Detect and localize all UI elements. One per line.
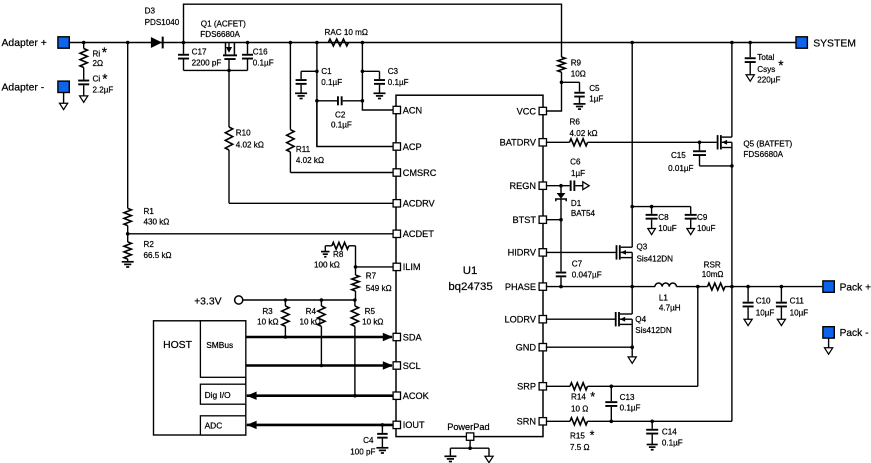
wire C1/ACP riser	[316, 43, 318, 147]
node C10 junction	[746, 285, 750, 289]
wire Q3 drain riser	[631, 43, 633, 248]
svg-text:Q5 (BATFET): Q5 (BATFET)	[743, 140, 792, 149]
wire SRN	[546, 420, 570, 422]
svg-text:ADC: ADC	[205, 421, 223, 431]
svg-text:C4: C4	[363, 436, 374, 445]
transistor Q3 Sis412DN	[616, 243, 673, 264]
svg-text:D1: D1	[571, 199, 582, 208]
svg-text:R3: R3	[262, 307, 273, 316]
pin ACP	[393, 142, 422, 152]
node ILIM junction	[354, 265, 358, 269]
node C13 top junction	[610, 385, 614, 389]
svg-text:RAC 10 mΩ: RAC 10 mΩ	[325, 28, 368, 37]
pin SCL	[393, 361, 420, 371]
pin LODRV	[505, 315, 547, 325]
svg-text:L1: L1	[659, 294, 669, 303]
svg-text:C11: C11	[790, 296, 805, 305]
svg-text:ACDET: ACDET	[403, 229, 435, 239]
pin BTST	[513, 215, 547, 225]
svg-text:*: *	[102, 72, 108, 87]
node C13 bottom junction	[610, 420, 614, 424]
svg-text:C10: C10	[756, 296, 771, 305]
capacitor C7	[556, 220, 602, 287]
svg-text:100 kΩ: 100 kΩ	[314, 261, 340, 270]
svg-text:SMBus: SMBus	[206, 340, 233, 350]
svg-text:HIDRV: HIDRV	[508, 248, 537, 258]
node ACFET gate junction	[227, 69, 231, 73]
transistor Q4 Sis412DN	[615, 312, 672, 335]
port SYSTEM	[796, 37, 856, 50]
svg-text:4.02 kΩ: 4.02 kΩ	[570, 129, 598, 138]
wire SRN riser	[731, 287, 733, 422]
node Q5 top junction	[730, 41, 734, 45]
capacitor Ci	[78, 68, 113, 96]
svg-text:+3.3V: +3.3V	[194, 296, 222, 307]
port Adapter -	[2, 81, 70, 103]
wire SCL	[246, 361, 393, 369]
wire L1 to RSR	[676, 286, 707, 288]
svg-text:BTST: BTST	[513, 215, 537, 225]
svg-text:Pack -: Pack -	[840, 328, 869, 339]
node R5/ACOK junction	[353, 394, 357, 398]
ground below C5	[574, 104, 586, 109]
svg-text:66.5 kΩ: 66.5 kΩ	[144, 251, 172, 260]
pin ACDET	[393, 229, 434, 239]
pin SRN	[517, 417, 547, 427]
svg-text:C6: C6	[570, 158, 581, 167]
svg-text:BATDRV: BATDRV	[500, 138, 537, 148]
pin ILIM	[393, 262, 420, 272]
wire Q3 source riser	[631, 258, 633, 287]
node C11 junction	[780, 285, 784, 289]
svg-text:PHASE: PHASE	[505, 282, 536, 292]
svg-text:C14: C14	[662, 428, 677, 437]
resistor R4	[299, 300, 325, 366]
node C8 rail junction	[630, 205, 634, 209]
wire SDA	[246, 333, 393, 341]
capacitor C15	[668, 142, 732, 173]
svg-text:R2: R2	[144, 240, 155, 249]
resistor R2	[124, 234, 172, 262]
resistor R10	[225, 70, 264, 203]
ground earth below PowerPad	[444, 456, 456, 461]
ground below Pack -	[825, 348, 833, 354]
svg-text:4.02 kΩ: 4.02 kΩ	[296, 156, 324, 165]
svg-text:0.1µF: 0.1µF	[388, 78, 409, 87]
svg-text:Q1 (ACFET): Q1 (ACFET)	[201, 19, 246, 28]
pin ACDRV	[393, 199, 435, 209]
node R9/C5 junction	[560, 81, 564, 85]
wire LODRV	[546, 318, 616, 320]
svg-text:430 kΩ: 430 kΩ	[144, 218, 170, 227]
svg-text:R15: R15	[570, 431, 585, 440]
svg-text:0.1µF: 0.1µF	[253, 59, 274, 68]
svg-text:ACOK: ACOK	[403, 391, 430, 401]
svg-text:C8: C8	[658, 213, 669, 222]
ground below C14	[647, 445, 658, 450]
node R4 top junction	[320, 298, 324, 302]
pin IOUT	[393, 420, 425, 430]
svg-text:0.1µF: 0.1µF	[620, 404, 641, 413]
capacitor C6	[570, 158, 585, 191]
node RAC right junction	[361, 41, 365, 45]
pin HIDRV	[508, 248, 547, 258]
capacitor C9	[685, 207, 716, 233]
svg-text:100 pF: 100 pF	[350, 447, 375, 456]
svg-text:10 kΩ: 10 kΩ	[299, 317, 320, 326]
block HOST	[154, 321, 246, 435]
pin ACOK	[393, 391, 430, 401]
svg-text:ILIM: ILIM	[403, 262, 421, 272]
svg-text:BAT54: BAT54	[571, 209, 596, 218]
capacitor C3	[362, 67, 408, 93]
inductor L1	[655, 283, 681, 312]
wire GND	[546, 346, 632, 348]
svg-text:0.01µF: 0.01µF	[668, 164, 693, 173]
svg-text:SYSTEM: SYSTEM	[813, 39, 856, 50]
wire Q4 source riser	[631, 324, 633, 347]
node ACFET drain junction	[182, 41, 186, 45]
svg-text:R1: R1	[144, 207, 155, 216]
ground below Adapter -	[60, 103, 68, 109]
svg-text:C2: C2	[335, 111, 346, 120]
svg-text:Sis412DN: Sis412DN	[637, 254, 674, 263]
svg-text:10mΩ: 10mΩ	[702, 270, 724, 279]
svg-text:LODRV: LODRV	[505, 315, 537, 325]
node R4/SCL junction	[320, 364, 324, 368]
svg-text:Csys: Csys	[757, 65, 775, 74]
svg-text:REGN: REGN	[509, 181, 536, 191]
pin SRP	[517, 382, 546, 392]
ground below C9	[687, 229, 695, 235]
wire PowerPad ground split	[450, 440, 489, 456]
capacitor C11	[776, 287, 808, 320]
ground below Q4	[628, 347, 636, 363]
node C16 top junction	[246, 41, 250, 45]
node R11 top junction	[289, 41, 293, 45]
svg-text:C9: C9	[697, 213, 708, 222]
wire ACOK	[247, 392, 393, 400]
svg-text:1µF: 1µF	[589, 94, 603, 103]
wire ACN	[362, 101, 393, 110]
wire ILIM	[356, 266, 394, 268]
svg-text:Ri: Ri	[93, 50, 101, 59]
resistor R9	[558, 57, 586, 82]
svg-text:RSR: RSR	[704, 261, 721, 270]
pin SDA	[393, 332, 422, 342]
svg-text:R5: R5	[365, 307, 376, 316]
svg-text:C17: C17	[192, 47, 207, 56]
transistor Q1 (ACFET) FDS6680A	[200, 19, 246, 70]
capacitor C8	[646, 207, 677, 233]
wire top bypass rail (ACFET drain to R9/VCC)	[184, 4, 562, 57]
svg-text:10Ω: 10Ω	[571, 69, 586, 78]
ground below Ci	[80, 96, 88, 102]
resistor R5	[351, 300, 383, 396]
port Pack -	[823, 327, 869, 348]
wire PHASE	[546, 286, 655, 288]
capacitor C4	[350, 425, 387, 456]
svg-text:CMSRC: CMSRC	[403, 168, 437, 178]
resistor RSR 10mOhm	[702, 261, 725, 291]
svg-text:R9: R9	[571, 59, 582, 68]
capacitor C13	[605, 386, 640, 421]
port Pack +	[823, 281, 871, 294]
node Q3/Q4 PHASE junction	[630, 285, 634, 289]
wire C8/C9 rail	[632, 206, 691, 208]
pin REGN	[509, 181, 546, 191]
ground below C10	[744, 319, 752, 325]
svg-text:Total: Total	[757, 53, 774, 62]
svg-text:VCC: VCC	[517, 106, 537, 116]
ground below R2	[122, 262, 134, 267]
node C2 left junction	[315, 99, 319, 103]
transistor Q5 (BATFET) FDS6680A	[717, 135, 793, 159]
ground below C8	[648, 229, 656, 235]
svg-text:IOUT: IOUT	[403, 420, 425, 430]
pin VCC	[517, 106, 547, 116]
wire BTST	[546, 219, 561, 221]
wire ACDRV	[229, 202, 393, 204]
resistor R3	[257, 300, 289, 337]
svg-text:C1: C1	[321, 67, 332, 76]
svg-text:ACN: ACN	[403, 105, 422, 115]
svg-text:10µF: 10µF	[756, 308, 775, 317]
ground below Csys	[746, 75, 754, 81]
svg-text:HOST: HOST	[163, 340, 193, 351]
capacitor C17	[178, 43, 221, 71]
node C15 junction	[698, 141, 702, 145]
wire SRP	[546, 385, 570, 387]
svg-text:R8: R8	[333, 250, 344, 259]
wire ACDET	[128, 233, 393, 235]
node adapter input junction	[82, 41, 86, 45]
capacitor C16	[242, 43, 274, 71]
node Csys junction	[748, 41, 752, 45]
svg-text:7.5 Ω: 7.5 Ω	[570, 443, 590, 452]
svg-text:10uF: 10uF	[697, 224, 716, 233]
pin CMSRC	[393, 168, 437, 178]
svg-text:GND: GND	[516, 343, 537, 353]
node C8 junction	[650, 205, 654, 209]
resistor R15	[570, 418, 732, 452]
svg-text:R6: R6	[570, 118, 581, 127]
node BTST junction	[559, 218, 563, 222]
node C4 junction	[381, 423, 385, 427]
node C3 junction	[361, 70, 365, 74]
svg-text:2.2µF: 2.2µF	[93, 85, 114, 94]
svg-text:10 kΩ: 10 kΩ	[362, 317, 383, 326]
svg-text:bq24735: bq24735	[448, 281, 492, 293]
svg-text:Dig I/O: Dig I/O	[205, 390, 232, 400]
wire HIDRV	[546, 251, 617, 253]
node GND junction	[630, 345, 634, 349]
svg-text:10µF: 10µF	[790, 308, 809, 317]
pin PHASE	[505, 282, 547, 292]
block ADC	[200, 416, 245, 435]
svg-text:0.047µF: 0.047µF	[572, 271, 602, 280]
wire C3/ACN riser	[361, 43, 363, 101]
ground left of R8	[321, 246, 330, 257]
resistor R11	[287, 43, 324, 173]
wire RSR to Pack+	[725, 286, 822, 288]
svg-text:C7: C7	[572, 259, 583, 268]
svg-text:R10: R10	[236, 128, 251, 137]
ground below C1	[295, 93, 307, 98]
resistor R6	[546, 118, 717, 146]
resistor R7	[352, 267, 392, 300]
svg-text:4.7µH: 4.7µH	[659, 303, 681, 312]
svg-text:R14: R14	[571, 393, 586, 402]
capacitor C10	[743, 287, 775, 320]
node RSR right junction	[730, 285, 734, 289]
block SMBus	[200, 321, 245, 378]
ground below C11	[777, 319, 785, 325]
wire Q5 source	[731, 148, 733, 287]
pin PowerPad	[466, 433, 473, 440]
svg-text:C13: C13	[620, 393, 635, 402]
node RSR left junction	[696, 285, 700, 289]
svg-text:*: *	[590, 390, 595, 404]
svg-text:R7: R7	[366, 272, 377, 281]
wire Q5 drain	[731, 43, 733, 138]
svg-text:SRN: SRN	[517, 417, 536, 427]
svg-text:D3: D3	[145, 6, 156, 15]
ground below C3	[374, 93, 386, 98]
svg-text:220µF: 220µF	[757, 76, 780, 85]
svg-text:Q4: Q4	[635, 315, 646, 324]
node Q3 top junction	[630, 41, 634, 45]
svg-text:0.1µF: 0.1µF	[331, 120, 352, 129]
node C1 junction	[315, 70, 319, 74]
svg-text:ACDRV: ACDRV	[403, 199, 436, 209]
pin GND	[516, 343, 547, 353]
node C2 right junction	[361, 99, 365, 103]
node PowerPad junction	[468, 446, 472, 450]
svg-text:R11: R11	[296, 145, 311, 154]
wire SRP riser	[697, 287, 699, 387]
capacitor Total Csys	[745, 43, 785, 85]
resistor Ri	[80, 43, 108, 69]
node ACDET junction	[126, 232, 130, 236]
svg-text:1µF: 1µF	[571, 169, 585, 178]
svg-text:Adapter +: Adapter +	[2, 38, 47, 49]
svg-text:*: *	[590, 429, 595, 443]
diode D1 BAT54	[556, 186, 596, 220]
wire main adapter rail	[69, 42, 796, 44]
node R7/R5 junction	[353, 298, 357, 302]
wire Q4 drain riser	[631, 287, 633, 314]
svg-text:4.02 kΩ: 4.02 kΩ	[236, 141, 264, 150]
svg-text:10uF: 10uF	[658, 224, 677, 233]
svg-text:2Ω: 2Ω	[93, 59, 104, 68]
svg-text:*: *	[778, 58, 784, 73]
svg-text:Adapter -: Adapter -	[2, 83, 45, 94]
svg-text:SRP: SRP	[517, 382, 536, 392]
block Dig I/O	[200, 384, 245, 404]
svg-text:10 kΩ: 10 kΩ	[257, 317, 278, 326]
svg-text:R4: R4	[306, 307, 317, 316]
capacitor C14	[646, 421, 683, 447]
wire REGN	[546, 185, 570, 187]
svg-text:C3: C3	[388, 67, 399, 76]
svg-text:0.1µF: 0.1µF	[662, 439, 683, 448]
svg-text:FDS6680A: FDS6680A	[200, 30, 240, 39]
svg-text:Pack +: Pack +	[840, 283, 871, 294]
node +3.3V supply	[194, 296, 355, 307]
node C15/Q5 junction	[730, 164, 734, 168]
node R1 branch junction	[126, 41, 130, 45]
svg-text:SDA: SDA	[403, 332, 423, 342]
svg-text:549 kΩ: 549 kΩ	[366, 284, 392, 293]
svg-text:10 Ω: 10 Ω	[571, 404, 588, 413]
svg-text:*: *	[102, 45, 108, 60]
node C14 junction	[650, 420, 654, 424]
svg-text:Sis412DN: Sis412DN	[635, 326, 672, 335]
svg-text:ACP: ACP	[403, 142, 422, 152]
svg-text:FDS6680A: FDS6680A	[743, 150, 783, 159]
capacitor C5	[562, 82, 604, 103]
svg-text:U1: U1	[463, 265, 478, 277]
svg-text:PowerPad: PowerPad	[447, 422, 489, 432]
op-amp U1 bq24735 body	[396, 95, 543, 436]
wire VCC	[546, 82, 562, 111]
svg-text:Q3: Q3	[637, 243, 648, 252]
svg-text:SCL: SCL	[403, 361, 421, 371]
resistor RAC 10 mOhm	[325, 28, 368, 46]
ground arrow below PowerPad	[485, 456, 493, 462]
svg-text:C15: C15	[671, 151, 686, 160]
wire IOUT	[247, 421, 393, 429]
wire ACP	[317, 101, 393, 147]
node R3 top junction	[284, 298, 288, 302]
resistor R8	[314, 242, 356, 269]
capacitor C1	[296, 67, 343, 93]
resistor R14	[570, 383, 698, 414]
ground below C4	[376, 448, 388, 453]
svg-text:PDS1040: PDS1040	[145, 18, 180, 27]
wire C17/C16 bottom rail	[184, 69, 248, 71]
node REGN junction	[559, 184, 563, 188]
svg-text:C5: C5	[589, 84, 600, 93]
svg-text:C16: C16	[253, 47, 268, 56]
node C7/PHASE junction	[559, 285, 563, 289]
node RAC left junction	[315, 41, 319, 45]
node R3/SDA junction	[284, 335, 288, 339]
pin BATDRV	[500, 138, 547, 148]
ground arrow right of C6	[583, 182, 589, 190]
svg-text:Ci: Ci	[93, 75, 101, 84]
diode D3 PDS1040	[145, 6, 180, 48]
resistor R1	[124, 43, 169, 234]
pin ACN	[393, 105, 422, 115]
svg-text:0.1µF: 0.1µF	[321, 78, 342, 87]
port Adapter +	[2, 37, 70, 49]
svg-text:2200 pF: 2200 pF	[192, 59, 222, 68]
wire CMSRC	[290, 172, 393, 174]
capacitor C2	[317, 96, 363, 129]
